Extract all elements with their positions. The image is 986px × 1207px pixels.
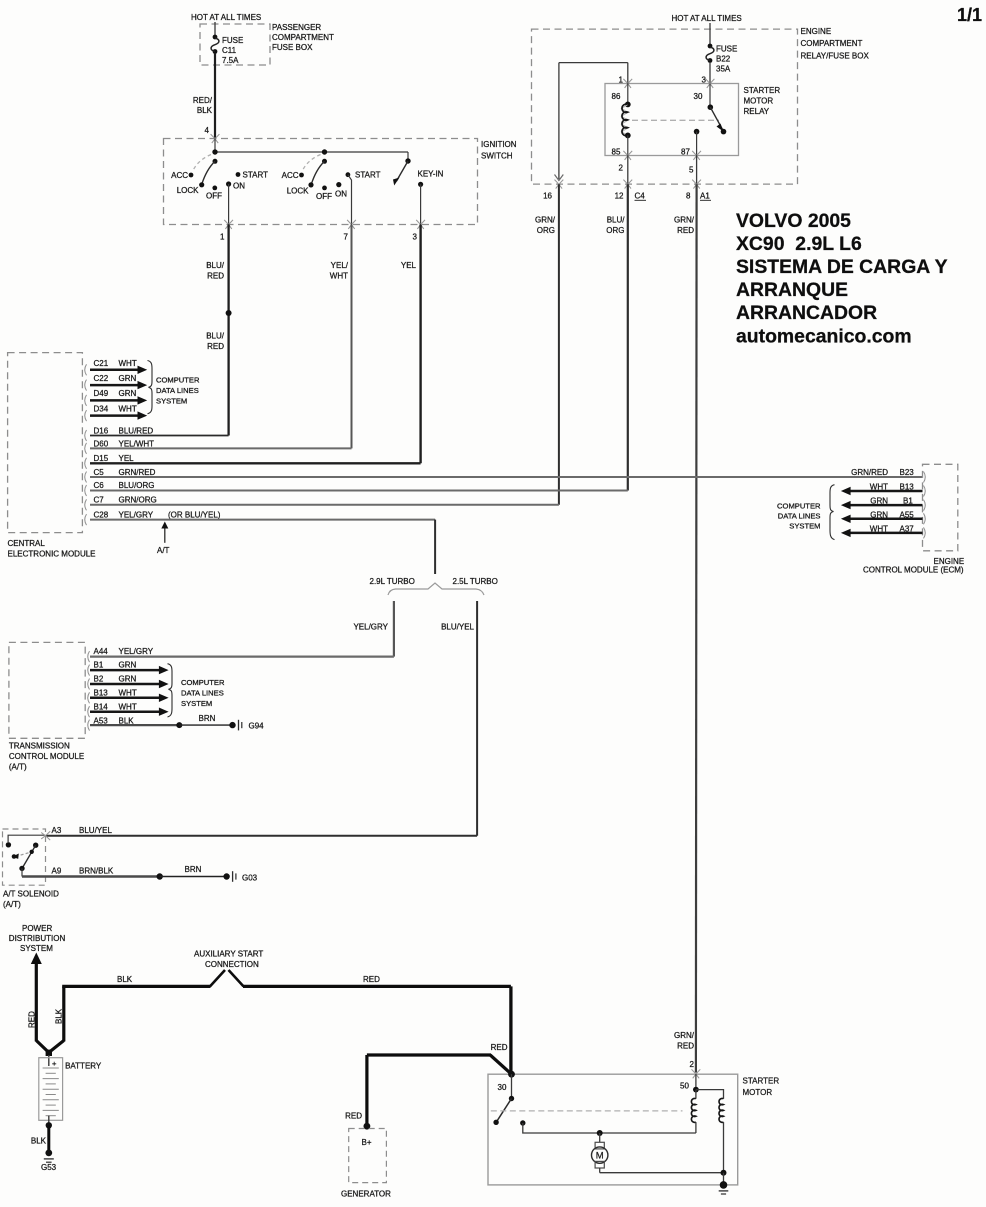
svg-text:SYSTEM: SYSTEM	[789, 522, 820, 531]
svg-text:ACC: ACC	[171, 171, 188, 180]
svg-text:XC90 2.9L L6: XC90 2.9L L6	[736, 233, 862, 255]
wire ignition pin 3 stub	[420, 184, 422, 224]
connector pin 7	[347, 220, 356, 229]
engine compartment relay/fuse box	[532, 27, 870, 184]
power distribution system tag	[9, 924, 66, 964]
svg-text:GRN/: GRN/	[674, 1031, 695, 1040]
svg-text:1/1: 1/1	[957, 5, 982, 25]
svg-text:ORG: ORG	[537, 226, 555, 235]
TCM data line B1 GRN	[90, 661, 169, 675]
connector relay pin 5	[692, 151, 701, 160]
svg-text:YEL/WHT: YEL/WHT	[119, 439, 155, 448]
svg-text:GRN/: GRN/	[674, 216, 695, 225]
svg-text:2: 2	[690, 1060, 695, 1069]
svg-text:A/T: A/T	[157, 546, 170, 555]
svg-text:TRANSMISSION: TRANSMISSION	[9, 742, 70, 751]
wire BLU/ORG pin12 down to C6	[606, 184, 628, 490]
ground G53	[41, 1150, 57, 1173]
svg-text:GRN/RED: GRN/RED	[119, 468, 156, 477]
svg-text:2: 2	[619, 164, 624, 173]
wire GRN/ORG pin16 down to C7	[535, 184, 559, 505]
svg-text:BLU/YEL: BLU/YEL	[441, 623, 474, 632]
svg-text:BATTERY: BATTERY	[65, 1062, 102, 1071]
svg-text:5: 5	[689, 166, 694, 175]
svg-text:RED: RED	[207, 342, 224, 351]
svg-text:1: 1	[619, 76, 624, 85]
svg-text:G03: G03	[242, 874, 258, 883]
svg-text:ARRANQUE: ARRANQUE	[736, 279, 848, 301]
svg-text:GRN/ORG: GRN/ORG	[119, 496, 157, 505]
ECM pin B23 GRN/RED label	[851, 468, 914, 477]
svg-text:RED: RED	[491, 1043, 508, 1052]
page number 1/1	[957, 5, 982, 25]
wire BLK battery negative to G53	[31, 1122, 52, 1153]
svg-text:BLU/: BLU/	[206, 261, 225, 270]
wire BLK A53 to ground G94	[90, 714, 233, 728]
connector relay pin 3	[706, 79, 715, 88]
relay coil	[622, 84, 631, 156]
svg-text:START: START	[243, 171, 269, 180]
svg-text:BLU/: BLU/	[206, 332, 225, 341]
svg-text:MOTOR: MOTOR	[744, 97, 774, 106]
svg-text:COMPUTER: COMPUTER	[777, 501, 821, 510]
svg-text:B2: B2	[94, 675, 104, 684]
svg-text:GRN: GRN	[119, 374, 137, 383]
svg-text:COMPUTER: COMPUTER	[156, 376, 200, 385]
svg-text:BLU/ORG: BLU/ORG	[119, 481, 155, 490]
svg-text:DATA LINES: DATA LINES	[181, 689, 224, 698]
svg-text:A9: A9	[52, 867, 62, 876]
wire relay pin5 to A1	[689, 156, 697, 185]
wire BLK/RED auxiliary start run	[62, 970, 511, 1073]
svg-text:GRN: GRN	[119, 675, 137, 684]
passenger compartment fuse box	[200, 23, 334, 65]
svg-text:ACC: ACC	[282, 171, 299, 180]
svg-text:RED/: RED/	[193, 96, 213, 105]
svg-text:OFF: OFF	[316, 192, 332, 201]
svg-text:C6: C6	[94, 481, 105, 490]
svg-text:PASSENGER: PASSENGER	[272, 23, 321, 32]
svg-text:B+: B+	[362, 1138, 372, 1147]
ignition switch wafer 3 key-in	[393, 158, 444, 187]
TCM data line B2 GRN	[90, 675, 169, 689]
svg-text:COMPARTMENT: COMPARTMENT	[801, 39, 863, 48]
connector 8 A1 at engine box edge	[692, 180, 701, 189]
ignition switch wafer 2	[282, 149, 381, 201]
wire BLU/YEL 2.5L branch to A/T solenoid A3	[46, 601, 478, 836]
svg-text:C5: C5	[94, 468, 105, 477]
wire YEL/GRY C28 horizontal	[90, 520, 435, 574]
wire BLK battery to junction	[49, 986, 64, 1052]
pin numbers 1 7 3	[220, 233, 418, 242]
wire RED generator B+ to starter pin 30	[345, 1043, 511, 1126]
svg-text:(OR BLU/YEL): (OR BLU/YEL)	[168, 510, 221, 519]
svg-text:RED: RED	[207, 272, 224, 281]
svg-text:87: 87	[681, 148, 690, 157]
wire BLU/RED ignition pin1 to CEM D16	[90, 225, 232, 436]
svg-text:7: 7	[344, 233, 349, 242]
svg-text:3: 3	[413, 233, 418, 242]
svg-text:RELAY: RELAY	[744, 107, 770, 116]
A/T solenoid box	[3, 829, 60, 909]
svg-text:SYSTEM: SYSTEM	[20, 944, 53, 953]
svg-text:D34: D34	[94, 404, 109, 413]
svg-text:ENGINE: ENGINE	[801, 27, 832, 36]
svg-text:POWER: POWER	[22, 924, 52, 933]
svg-text:G53: G53	[41, 1163, 57, 1172]
TCM data line B14 WHT	[90, 703, 169, 716]
starter motor relay box	[605, 84, 780, 156]
svg-text:(A/T): (A/T)	[3, 900, 21, 909]
CEM data line C21 WHT	[90, 359, 147, 374]
A/T solenoid switch	[6, 835, 45, 876]
svg-text:C7: C7	[94, 496, 105, 505]
svg-text:B22: B22	[716, 55, 731, 64]
CEM pin row labels D16..C28	[94, 426, 221, 519]
CEM pin stubs	[85, 364, 87, 525]
svg-text:CENTRAL: CENTRAL	[8, 539, 46, 548]
svg-text:START: START	[355, 171, 381, 180]
turbo variant split connector	[370, 577, 498, 595]
svg-text:GRN/: GRN/	[535, 216, 556, 225]
svg-text:G94: G94	[249, 722, 265, 731]
svg-text:VOLVO 2005: VOLVO 2005	[736, 210, 851, 232]
wire YEL/WHT ignition pin7 to CEM D60	[90, 225, 352, 449]
ground G03	[223, 871, 257, 882]
svg-text:12: 12	[615, 192, 624, 201]
svg-text:D16: D16	[94, 426, 109, 435]
svg-text:B23: B23	[900, 468, 915, 477]
svg-text:86: 86	[612, 92, 621, 101]
svg-text:35A: 35A	[716, 65, 731, 74]
svg-text:RED: RED	[345, 1112, 362, 1121]
connector pin 1	[224, 220, 233, 229]
pin labels A3 BLU/YEL	[52, 826, 113, 835]
wire fuse B22 to relay pin 3	[702, 62, 710, 85]
svg-text:SYSTEM: SYSTEM	[181, 699, 212, 708]
svg-text:ARRANCADOR: ARRANCADOR	[736, 302, 877, 324]
svg-text:COMPUTER: COMPUTER	[181, 678, 225, 687]
svg-text:COMPARTMENT: COMPARTMENT	[272, 33, 334, 42]
svg-text:RED: RED	[28, 1011, 37, 1028]
svg-text:85: 85	[612, 148, 621, 157]
svg-text:2.9L TURBO: 2.9L TURBO	[370, 577, 415, 586]
svg-text:(A/T): (A/T)	[9, 763, 27, 772]
wire GRN/ORG C7 horizontal	[90, 504, 559, 506]
wire ignition pin 7 stub	[348, 175, 352, 225]
wire relay pin 1 branch from coil up and left	[555, 63, 628, 181]
svg-text:D60: D60	[94, 439, 109, 448]
CEM computer data lines brace	[148, 361, 200, 414]
battery	[39, 1058, 102, 1126]
starter motor box	[488, 1074, 779, 1185]
A/T tag arrow at C28	[157, 522, 170, 556]
wire relay pin2 to C4	[619, 156, 628, 185]
svg-text:STARTER: STARTER	[744, 86, 781, 95]
svg-text:WHT: WHT	[119, 404, 137, 413]
svg-text:YEL/GRY: YEL/GRY	[353, 623, 388, 632]
node HOT AT ALL TIMES (engine)	[672, 14, 742, 23]
svg-text:ELECTRONIC MODULE: ELECTRONIC MODULE	[8, 550, 96, 559]
svg-text:BLU/: BLU/	[607, 216, 626, 225]
svg-text:YEL/GRY: YEL/GRY	[119, 647, 154, 656]
svg-text:HOT AT ALL TIMES: HOT AT ALL TIMES	[191, 13, 261, 22]
svg-text:C4: C4	[635, 192, 646, 201]
svg-text:8: 8	[686, 192, 691, 201]
wire YEL ignition pin3 to CEM D15	[90, 225, 421, 464]
ECM data line B1 GRN	[841, 497, 923, 510]
svg-text:CONTROL MODULE: CONTROL MODULE	[9, 752, 84, 761]
svg-text:SYSTEM: SYSTEM	[156, 397, 187, 406]
svg-text:16: 16	[543, 192, 552, 201]
battery positive terminal	[46, 1050, 52, 1066]
svg-text:OFF: OFF	[206, 192, 222, 201]
svg-text:A1: A1	[700, 192, 710, 201]
svg-text:DISTRIBUTION: DISTRIBUTION	[9, 934, 66, 943]
svg-text:C22: C22	[94, 374, 109, 383]
TCM pin stubs	[88, 651, 90, 731]
svg-text:A3: A3	[52, 826, 62, 835]
ECM data line A55 GRN	[841, 510, 923, 523]
connector starter pin 2/50 at box edge	[692, 1069, 701, 1078]
title block	[736, 210, 948, 348]
connector pin 3	[416, 220, 425, 229]
svg-text:30: 30	[498, 1083, 507, 1092]
TCM data line B13 WHT	[90, 689, 169, 703]
svg-text:RED: RED	[677, 226, 694, 235]
svg-text:BRN: BRN	[199, 714, 216, 723]
svg-text:automecanico.com: automecanico.com	[736, 326, 912, 348]
wire GRN/RED pin8 down to starter pin2	[674, 184, 697, 1072]
wire GRN/RED C5 to ECM B23	[90, 476, 923, 478]
CEM data line D34 WHT	[90, 404, 147, 420]
svg-text:BRN/BLK: BRN/BLK	[79, 867, 114, 876]
svg-text:FUSE BOX: FUSE BOX	[272, 43, 313, 52]
ECM computer data lines brace	[777, 485, 834, 540]
svg-text:BLU/YEL: BLU/YEL	[79, 826, 112, 835]
wire BRN/BLK A9 to ground G03	[22, 865, 227, 880]
svg-text:AUXILIARY START: AUXILIARY START	[194, 950, 263, 959]
svg-text:WHT: WHT	[330, 272, 348, 281]
relay switch 30-87	[694, 84, 727, 156]
svg-text:WHT: WHT	[119, 703, 137, 712]
svg-text:BLK: BLK	[55, 1008, 64, 1024]
svg-text:BLU/RED: BLU/RED	[119, 426, 154, 435]
svg-text:LOCK: LOCK	[287, 187, 309, 196]
svg-text:B1: B1	[94, 661, 104, 670]
svg-text:A44: A44	[94, 647, 109, 656]
wire YEL/GRY 2.9L branch to TCM A44	[90, 601, 394, 657]
svg-text:4: 4	[205, 126, 210, 135]
connector relay pin 2	[623, 151, 632, 160]
svg-text:MOTOR: MOTOR	[743, 1088, 773, 1097]
connector relay pin 1	[623, 79, 632, 88]
svg-text:CONNECTION: CONNECTION	[205, 960, 259, 969]
svg-text:C11: C11	[222, 46, 237, 55]
svg-text:FUSE: FUSE	[716, 45, 737, 54]
svg-text:A/T SOLENOID: A/T SOLENOID	[3, 890, 59, 899]
svg-text:+: +	[52, 1059, 57, 1068]
svg-text:YEL/: YEL/	[331, 261, 349, 270]
CEM data line D49 GRN	[90, 389, 147, 404]
svg-text:B13: B13	[94, 689, 109, 698]
connector A3 at solenoid edge	[41, 831, 50, 840]
wire hot-at-all-times to fuse B22	[709, 23, 711, 46]
svg-text:7.5A: 7.5A	[222, 56, 239, 65]
svg-text:STARTER: STARTER	[743, 1077, 780, 1086]
svg-text:D49: D49	[94, 389, 109, 398]
svg-text:GENERATOR: GENERATOR	[341, 1190, 391, 1199]
central electronic module box	[8, 353, 96, 559]
starter actuation dashed link	[491, 1110, 683, 1112]
svg-text:B14: B14	[94, 703, 109, 712]
TCM computer data lines brace	[168, 664, 225, 717]
wire RED/BLK fuse C11 to ignition switch pin 4	[193, 53, 215, 139]
connector 12 C4 at engine box edge	[623, 180, 632, 189]
svg-text:M: M	[596, 1150, 604, 1161]
svg-text:WHT: WHT	[119, 359, 137, 368]
svg-text:IGNITION: IGNITION	[481, 140, 517, 149]
wire ignition pin 1 stub	[228, 184, 230, 225]
connector 16 at engine box edge	[555, 180, 564, 189]
svg-text:WHT: WHT	[119, 689, 137, 698]
svg-text:BLK: BLK	[197, 106, 213, 115]
svg-text:YEL/GRY: YEL/GRY	[119, 510, 154, 519]
svg-text:KEY-IN: KEY-IN	[418, 170, 444, 179]
starter pull-in winding	[691, 1090, 695, 1133]
fuse C11 7.5A	[211, 35, 243, 65]
wire ignition bus	[215, 139, 408, 162]
transmission control module box	[9, 642, 85, 771]
relay actuation dashed link	[632, 119, 719, 121]
svg-text:LOCK: LOCK	[177, 186, 199, 195]
svg-text:1: 1	[220, 233, 225, 242]
svg-text:GRN: GRN	[119, 661, 137, 670]
svg-text:BRN: BRN	[185, 865, 202, 874]
starter pin 50 node and windings	[680, 1074, 724, 1099]
svg-text:ON: ON	[335, 190, 347, 199]
svg-text:CONTROL MODULE (ECM): CONTROL MODULE (ECM)	[863, 566, 964, 575]
pin labels 16 12 C4 8 A1	[543, 192, 711, 201]
ground G94	[229, 720, 264, 731]
svg-text:2.5L TURBO: 2.5L TURBO	[453, 577, 498, 586]
svg-text:SWITCH: SWITCH	[481, 152, 513, 161]
wire hot-at-all-times to fuse C11	[214, 22, 216, 37]
starter solenoid switch	[493, 1074, 696, 1133]
starter motor M	[592, 1130, 724, 1173]
engine control module (ECM) box	[863, 464, 964, 574]
svg-text:ON: ON	[233, 182, 245, 191]
TCM pin A44 YEL/GRY label	[94, 647, 154, 656]
svg-text:HOT AT ALL TIMES: HOT AT ALL TIMES	[672, 14, 742, 23]
svg-text:DATA LINES: DATA LINES	[778, 511, 821, 520]
svg-text:ORG: ORG	[606, 226, 624, 235]
svg-text:YEL: YEL	[119, 454, 135, 463]
svg-text:GRN: GRN	[119, 389, 137, 398]
svg-text:DATA LINES: DATA LINES	[156, 386, 199, 395]
generator box	[341, 1123, 391, 1199]
svg-text:C28: C28	[94, 510, 109, 519]
svg-text:BLK: BLK	[117, 975, 133, 984]
svg-text:30: 30	[694, 92, 703, 101]
svg-text:YEL: YEL	[401, 261, 417, 270]
starter internal ground node	[721, 1170, 727, 1185]
svg-text:C21: C21	[94, 359, 109, 368]
ECM pin stubs	[924, 472, 926, 539]
wire RED battery to power distribution	[28, 962, 49, 1053]
svg-text:GRN/RED: GRN/RED	[851, 468, 888, 477]
wire BLU/ORG C6 horizontal	[90, 490, 628, 492]
ECM data line B13 WHT	[841, 483, 923, 496]
svg-text:BLK: BLK	[31, 1137, 47, 1146]
starter hold-in winding	[719, 1098, 723, 1172]
svg-text:FUSE: FUSE	[222, 36, 243, 45]
CEM data line C22 GRN	[90, 374, 147, 389]
connector pin 4 at ignition box edge	[211, 134, 220, 143]
svg-text:50: 50	[680, 1082, 689, 1091]
svg-text:RELAY/FUSE BOX: RELAY/FUSE BOX	[801, 52, 870, 61]
relay pin labels 86 30 85 87	[612, 92, 703, 157]
ECM data line A37 WHT	[841, 524, 923, 537]
ignition switch box	[164, 139, 517, 225]
ignition switch wafer 1	[171, 149, 268, 200]
svg-text:RED: RED	[363, 975, 380, 984]
auxiliary start connection label	[194, 950, 263, 970]
node HOT AT ALL TIMES (passenger)	[191, 13, 261, 22]
svg-text:RED: RED	[677, 1042, 694, 1051]
svg-text:D15: D15	[94, 454, 109, 463]
svg-text:SISTEMA DE CARGA Y: SISTEMA DE CARGA Y	[736, 256, 948, 278]
starter pin 30 node	[498, 1071, 515, 1092]
fuse B22 35A	[706, 44, 737, 74]
ground at starter case	[719, 1181, 729, 1194]
